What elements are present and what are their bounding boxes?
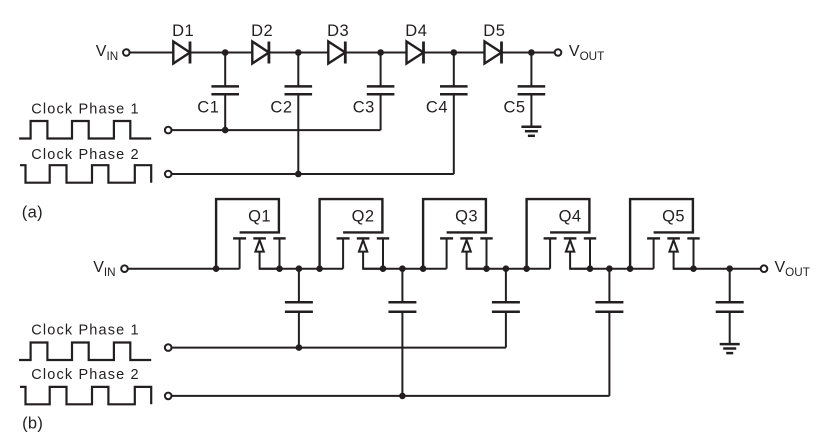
node dot capacitor C2 (b) [399, 265, 406, 272]
node dot above C3 [377, 49, 384, 56]
ground under C5 (a) [521, 127, 541, 136]
node dot Q4 gate-drain [523, 265, 530, 272]
capacitor C1 [211, 53, 239, 95]
junction dot cap1-bus1 (b) [296, 344, 303, 351]
node dot above C2 [295, 49, 302, 56]
transistor Q2 [320, 199, 390, 269]
svg-text:Clock Phase 2: Clock Phase 2 [31, 147, 139, 163]
transistor Q3 [423, 199, 493, 269]
svg-text:C5: C5 [504, 99, 526, 117]
diode D1 [173, 42, 190, 64]
capacitor C3 (b) [492, 269, 520, 348]
svg-text:D4: D4 [405, 22, 427, 40]
node dot output capacitor (b) [726, 265, 733, 272]
node dot Q3 gate-drain [420, 265, 427, 272]
svg-text:Q3: Q3 [455, 208, 478, 226]
node dot Q2 gate-drain [316, 265, 323, 272]
clock phase 2 terminal (b) [165, 393, 172, 400]
svg-text:Clock Phase 2: Clock Phase 2 [31, 367, 139, 383]
wire top rail (a) [269, 52, 328, 54]
node dot above C4 [451, 49, 458, 56]
svg-text:D3: D3 [327, 22, 349, 40]
ground (b) [720, 344, 740, 353]
wire C3 to clock bus 1 (a) [380, 94, 382, 130]
wire C2 to clock bus 2 (a) [297, 94, 299, 174]
output terminal VOUT (a) [555, 49, 562, 56]
clock phase 1 bus (b) [171, 347, 506, 349]
node dot above C5 [528, 49, 535, 56]
clock phase 2 bus (b) [171, 395, 609, 397]
clock phase 1 terminal (b) [165, 344, 172, 351]
svg-text:Q2: Q2 [352, 208, 375, 226]
diode D5 [485, 42, 502, 64]
capacitor C2 [285, 53, 313, 95]
wire top rail (a) [502, 52, 555, 54]
wire C1 to clock bus 1 (a) [224, 94, 226, 130]
svg-text:(a): (a) [22, 203, 43, 221]
wire C5 to ground (a) [530, 94, 532, 127]
transistor Q5 [630, 199, 700, 269]
svg-text:D2: D2 [251, 22, 273, 40]
clock phase 2 terminal (a) [165, 171, 172, 178]
clock phase 1 bus (a) [171, 129, 380, 131]
svg-text:Q5: Q5 [662, 208, 685, 226]
svg-text:Q4: Q4 [559, 208, 582, 226]
transistor Q4 [527, 199, 597, 269]
node dot Q4 source-bulk [587, 265, 594, 272]
capacitor C5 [518, 53, 546, 95]
clock phase 2 waveform (a) [20, 165, 151, 183]
junction dot C2-bus2 (a) [295, 171, 302, 178]
wire main rail (b) [570, 268, 654, 270]
diode D3 [328, 42, 345, 64]
diode D4 [407, 42, 424, 64]
capacitor C2 (b) [388, 269, 416, 396]
wire top rail (a) [345, 52, 406, 54]
transistor Q1 [216, 199, 286, 269]
clock phase 2 bus (a) [171, 173, 453, 175]
node dot Q1 gate-drain [213, 265, 220, 272]
node dot capacitor C3 (b) [503, 265, 510, 272]
diode D2 [252, 42, 269, 64]
clock phase 2 waveform (b) [20, 387, 151, 404]
node dot capacitor C1 (b) [296, 265, 303, 272]
junction dot cap2-bus2 (b) [399, 393, 406, 400]
node dot Q2 source-bulk [380, 265, 387, 272]
capacitor C1 (b) [285, 269, 313, 348]
svg-text:Q1: Q1 [248, 208, 271, 226]
wire main rail (b) [260, 268, 344, 270]
output capacitor C5 (b) [716, 269, 744, 344]
svg-text:D5: D5 [483, 22, 505, 40]
node dot Q5 gate-drain [627, 265, 634, 272]
node dot above C1 [222, 49, 229, 56]
wire main rail (b) [674, 268, 761, 270]
svg-text:C2: C2 [270, 99, 292, 117]
svg-text:D1: D1 [172, 22, 194, 40]
clock phase 1 terminal (a) [165, 127, 172, 134]
svg-text:(b): (b) [22, 414, 43, 432]
wire main rail (b) [128, 268, 240, 270]
capacitor C4 (b) [595, 269, 623, 396]
svg-text:C1: C1 [197, 99, 219, 117]
wire top rail (a) [190, 52, 252, 54]
node dot Q1 source-bulk [276, 265, 283, 272]
output terminal VOUT (b) [761, 265, 768, 272]
wire top rail (a) [424, 52, 485, 54]
clock phase 1 waveform (b) [19, 343, 151, 361]
wire main rail (b) [467, 268, 550, 270]
wire main rail (b) [363, 268, 447, 270]
svg-text:Clock Phase 1: Clock Phase 1 [31, 323, 139, 339]
node dot Q5 source-bulk [690, 265, 697, 272]
node dot Q3 source-bulk [483, 265, 490, 272]
wire C4 to clock bus 2 (a) [453, 94, 455, 174]
svg-text:C4: C4 [426, 99, 448, 117]
junction dot C1-bus1 (a) [222, 127, 229, 134]
svg-text:C3: C3 [353, 99, 375, 117]
node dot capacitor C4 (b) [606, 265, 613, 272]
wire top rail (a) [129, 52, 173, 54]
capacitor C3 [367, 53, 395, 95]
capacitor C4 [440, 53, 468, 95]
clock phase 1 waveform (a) [19, 121, 151, 139]
svg-text:Clock Phase 1: Clock Phase 1 [31, 101, 139, 117]
